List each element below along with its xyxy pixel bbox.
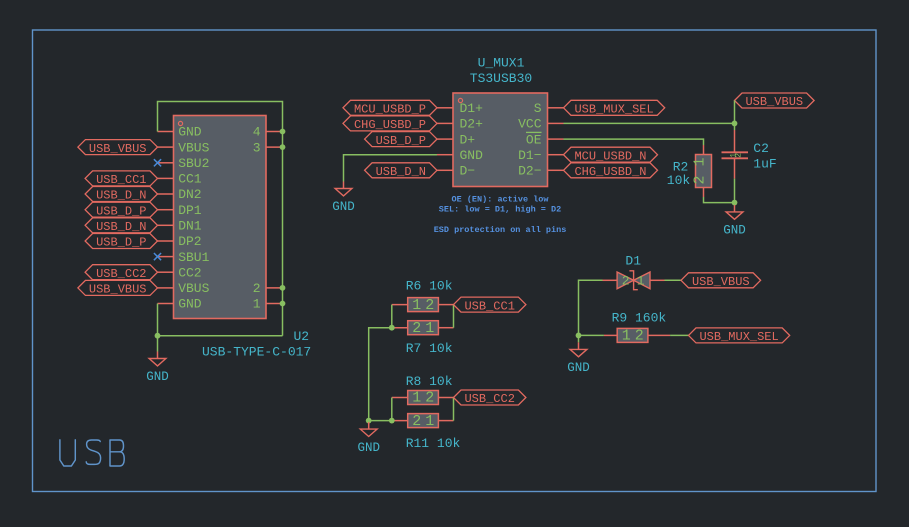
svg-text:1: 1 <box>412 297 421 314</box>
svg-text:2: 2 <box>412 320 421 337</box>
R9 pins <box>604 334 617 336</box>
junction VCC/USB_VBUS <box>732 121 738 127</box>
svg-text:GND: GND <box>178 297 202 312</box>
svg-text:USB_CC2: USB_CC2 <box>96 267 146 281</box>
svg-text:USB_VBUS: USB_VBUS <box>692 275 750 289</box>
wire D1 left down <box>579 280 603 342</box>
svg-text:D−: D− <box>460 164 476 179</box>
svg-text:GND: GND <box>567 361 590 375</box>
svg-text:USB_D_P: USB_D_P <box>96 204 146 218</box>
no-connect X on SBU1 <box>154 253 161 260</box>
svg-text:DN2: DN2 <box>178 187 201 202</box>
svg-text:1: 1 <box>412 390 421 407</box>
junction R6/R7 <box>389 325 395 331</box>
svg-text:S: S <box>534 101 542 116</box>
U_MUX1 pin OE (right) <box>526 132 564 147</box>
net label USB_D_P (mux) <box>365 132 437 148</box>
svg-text:USB_D_N: USB_D_N <box>376 165 426 179</box>
svg-text:D2+: D2+ <box>460 117 484 132</box>
wire D1 to USB_VBUS <box>665 279 682 281</box>
svg-text:CHG_USBD_P: CHG_USBD_P <box>354 118 426 132</box>
svg-text:USB_CC1: USB_CC1 <box>96 173 146 187</box>
U_MUX1 pin D+ (left) <box>437 132 475 147</box>
capacitor C2 <box>722 130 749 179</box>
svg-text:1: 1 <box>425 320 434 337</box>
IC U2 USB-TYPE-C-017 body <box>174 116 267 319</box>
svg-text:GND: GND <box>146 370 169 384</box>
svg-text:1: 1 <box>622 328 631 345</box>
net label USB_VBUS (lower) <box>78 280 158 296</box>
U2 pin CC1 (left) <box>158 172 202 187</box>
U2 pin VBUS (left) <box>158 140 210 155</box>
svg-text:USB_VBUS: USB_VBUS <box>89 142 147 156</box>
svg-text:USB_MUX_SEL: USB_MUX_SEL <box>574 103 653 117</box>
svg-text:USB_D_N: USB_D_N <box>96 189 146 203</box>
svg-text:USB_VBUS: USB_VBUS <box>89 283 147 297</box>
no-connect X on SBU2 <box>154 159 161 166</box>
svg-text:USB_CC2: USB_CC2 <box>464 392 514 406</box>
svg-text:VBUS: VBUS <box>178 281 209 296</box>
resistor R9 <box>617 328 648 345</box>
net label USB_CC2 <box>85 265 157 281</box>
net label USB_MUX_SEL <box>564 100 665 116</box>
svg-text:D1+: D1+ <box>460 101 484 116</box>
svg-text:D+: D+ <box>460 132 476 147</box>
svg-text:OE (EN): active low: OE (EN): active low <box>452 195 550 205</box>
junction U2 GND <box>155 333 161 339</box>
svg-text:GND: GND <box>178 125 202 140</box>
svg-text:MCU_USBD_N: MCU_USBD_N <box>574 149 646 163</box>
svg-text:GND: GND <box>332 200 355 214</box>
svg-text:2: 2 <box>412 413 421 430</box>
R11 pins <box>392 420 408 422</box>
junction gnd rail <box>366 418 372 424</box>
U2 pin DN2 (left) <box>158 187 202 202</box>
U2 pin VBUS (left) <box>158 281 210 296</box>
svg-text:2: 2 <box>635 328 644 345</box>
U2 pin DP1 (left) <box>158 203 202 218</box>
svg-text:SBU1: SBU1 <box>178 250 209 265</box>
junction pin4 <box>280 129 286 135</box>
svg-text:GND: GND <box>357 441 380 455</box>
R2 pin stubs <box>703 145 705 155</box>
net label USB_D_P <box>85 202 157 218</box>
svg-text:R7 10k: R7 10k <box>406 341 453 356</box>
junction pin2 <box>280 285 286 291</box>
svg-text:C2: C2 <box>753 141 769 156</box>
svg-text:SBU2: SBU2 <box>178 156 209 171</box>
svg-text:USB_VBUS: USB_VBUS <box>745 95 803 109</box>
U2 pin SBU1 (left) <box>158 250 210 265</box>
U_MUX1 pin S (right) <box>534 101 564 116</box>
svg-text:CC2: CC2 <box>178 265 201 280</box>
junction R8/R11 <box>389 418 395 424</box>
resistor R7 <box>408 320 439 337</box>
svg-text:VBUS: VBUS <box>178 140 209 155</box>
svg-text:GND: GND <box>460 148 484 163</box>
wire GND loop top/right of U2 <box>158 102 283 336</box>
D1 pins <box>603 279 618 281</box>
wire gnd rail to R11 <box>369 420 392 422</box>
net label USB_D_N (DN1) <box>85 218 157 234</box>
IC U_MUX1 TS3USB30 body <box>453 93 548 187</box>
wire bottom GND bus <box>158 335 283 337</box>
U2 pin DP2 (left) <box>158 234 202 249</box>
wire USB_VBUS down <box>734 101 736 131</box>
svg-text:1: 1 <box>253 297 261 312</box>
svg-text:USB_D_N: USB_D_N <box>96 220 146 234</box>
U2 pin GND (left) <box>158 297 202 312</box>
wire gnd rail to R9 <box>579 334 604 336</box>
svg-text:2: 2 <box>425 297 434 314</box>
resistor R8 <box>408 390 439 407</box>
net label USB_D_P (DP2) <box>85 234 157 250</box>
sheet name USB <box>60 440 124 466</box>
U_MUX1 pin D1− (right) <box>518 148 563 163</box>
U2 pin DN1 (left) <box>158 219 202 234</box>
net label MCU_USBD_P <box>343 100 437 116</box>
net label USB_VBUS (top right) <box>735 93 815 109</box>
svg-text:CC1: CC1 <box>178 172 202 187</box>
svg-text:2: 2 <box>735 153 744 158</box>
R8 pins <box>392 397 408 399</box>
U_MUX1 pin D2− (right) <box>518 164 563 179</box>
svg-text:MCU_USBD_P: MCU_USBD_P <box>354 103 426 117</box>
U2 pin 1 (right) <box>253 297 283 312</box>
wire R7 right up to label <box>453 305 455 328</box>
wire R2 bottom to GND rail <box>704 197 735 203</box>
U_MUX1 pin D2+ (left) <box>437 117 483 132</box>
wire R8-R11 left <box>391 398 393 421</box>
net label USB_D_N <box>85 187 157 203</box>
svg-text:ESD protection on all pins: ESD protection on all pins <box>434 225 567 235</box>
svg-text:2: 2 <box>253 281 261 296</box>
net label USB_VBUS (at D1) <box>681 273 761 289</box>
svg-text:USB-TYPE-C-017: USB-TYPE-C-017 <box>202 345 311 360</box>
wire R9 to label <box>670 334 688 336</box>
svg-text:DP2: DP2 <box>178 234 201 249</box>
net label MCU_USBD_N <box>564 147 658 163</box>
svg-text:USB_CC1: USB_CC1 <box>464 299 514 313</box>
net label CHG_USBD_P <box>343 116 437 132</box>
diode D1 TVS <box>617 271 650 290</box>
junction pin3 <box>280 144 286 150</box>
svg-text:DN1: DN1 <box>178 219 202 234</box>
svg-text:OE: OE <box>526 132 542 147</box>
wire R7 junction to gnd rail <box>369 328 392 422</box>
net label USB_D_N (mux) <box>365 163 437 179</box>
svg-text:2 1: 2 1 <box>692 157 709 184</box>
U2 pin SBU2 (left) <box>158 156 210 171</box>
svg-text:2: 2 <box>622 273 630 288</box>
ground below mux <box>332 182 355 215</box>
junction D1/R9 <box>576 333 582 339</box>
net label USB_MUX_SEL (at R9) <box>689 328 790 344</box>
svg-text:D1: D1 <box>625 254 641 269</box>
svg-text:2: 2 <box>425 390 434 407</box>
wire R11 right up to label <box>453 398 455 421</box>
net label USB_VBUS <box>78 140 158 156</box>
svg-text:R6 10k: R6 10k <box>406 278 453 293</box>
U2 pin CC2 (left) <box>158 265 202 280</box>
svg-text:10k: 10k <box>667 173 691 188</box>
ground below D1/R9 <box>567 342 590 375</box>
U_MUX1 pin VCC (right) <box>518 117 563 132</box>
svg-text:4: 4 <box>253 125 261 140</box>
wire VCC to USB_VBUS rail <box>564 122 735 124</box>
U2 pin GND (left) <box>158 125 202 140</box>
svg-text:1uF: 1uF <box>753 157 776 172</box>
svg-text:3: 3 <box>253 140 261 155</box>
net label CHG_USBD_N <box>564 163 658 179</box>
resistor R6 <box>408 297 439 314</box>
resistor R2 body <box>692 155 712 188</box>
svg-text:USB_D_P: USB_D_P <box>376 134 426 148</box>
ground below U2 <box>146 352 169 385</box>
junction C2/R2 gnd <box>732 200 738 206</box>
resistor R11 <box>408 413 439 430</box>
net label USB_CC2 <box>454 390 526 406</box>
svg-text:1: 1 <box>425 413 434 430</box>
svg-text:USB_D_P: USB_D_P <box>96 236 146 250</box>
svg-text:VCC: VCC <box>518 117 542 132</box>
svg-text:USB_MUX_SEL: USB_MUX_SEL <box>699 330 778 344</box>
wire C2 to ground <box>734 179 736 205</box>
svg-text:1: 1 <box>637 273 645 288</box>
ground below R7/R11 <box>357 422 380 455</box>
U_MUX1 pin GND (left) <box>437 148 483 163</box>
wire R6-R7 left <box>391 305 393 328</box>
svg-text:GND: GND <box>723 224 746 238</box>
svg-text:R9 160k: R9 160k <box>612 310 667 325</box>
svg-text:R8 10k: R8 10k <box>406 374 453 389</box>
wire U2 bottom GND pin down <box>157 303 159 351</box>
svg-text:U_MUX1: U_MUX1 <box>478 56 525 71</box>
U2 pin 3 (right) <box>253 140 283 155</box>
svg-text:TS3USB30: TS3USB30 <box>470 71 532 86</box>
svg-text:U2: U2 <box>294 329 310 344</box>
U2 pin 2 (right) <box>253 281 283 296</box>
R7 pins <box>392 327 408 329</box>
net label USB_CC1 <box>85 171 157 187</box>
wire OE to R2 <box>564 139 704 145</box>
ground below C2 <box>723 205 746 238</box>
U_MUX1 pin D1+ (left) <box>437 101 483 116</box>
junction pin1 <box>280 301 286 307</box>
wire mux GND to ground <box>344 155 438 182</box>
svg-text:D2−: D2− <box>518 164 542 179</box>
net label USB_CC1 <box>454 297 526 313</box>
svg-text:D1−: D1− <box>518 148 542 163</box>
svg-text:SEL: low = D1, high = D2: SEL: low = D1, high = D2 <box>439 205 561 215</box>
U_MUX1 pin D− (left) <box>437 164 475 179</box>
OE overline <box>526 131 542 133</box>
R6 pins <box>392 304 408 306</box>
svg-text:R11 10k: R11 10k <box>406 436 461 451</box>
U2 pin 4 (right) <box>253 125 283 140</box>
svg-text:CHG_USBD_N: CHG_USBD_N <box>574 165 646 179</box>
svg-text:DP1: DP1 <box>178 203 202 218</box>
